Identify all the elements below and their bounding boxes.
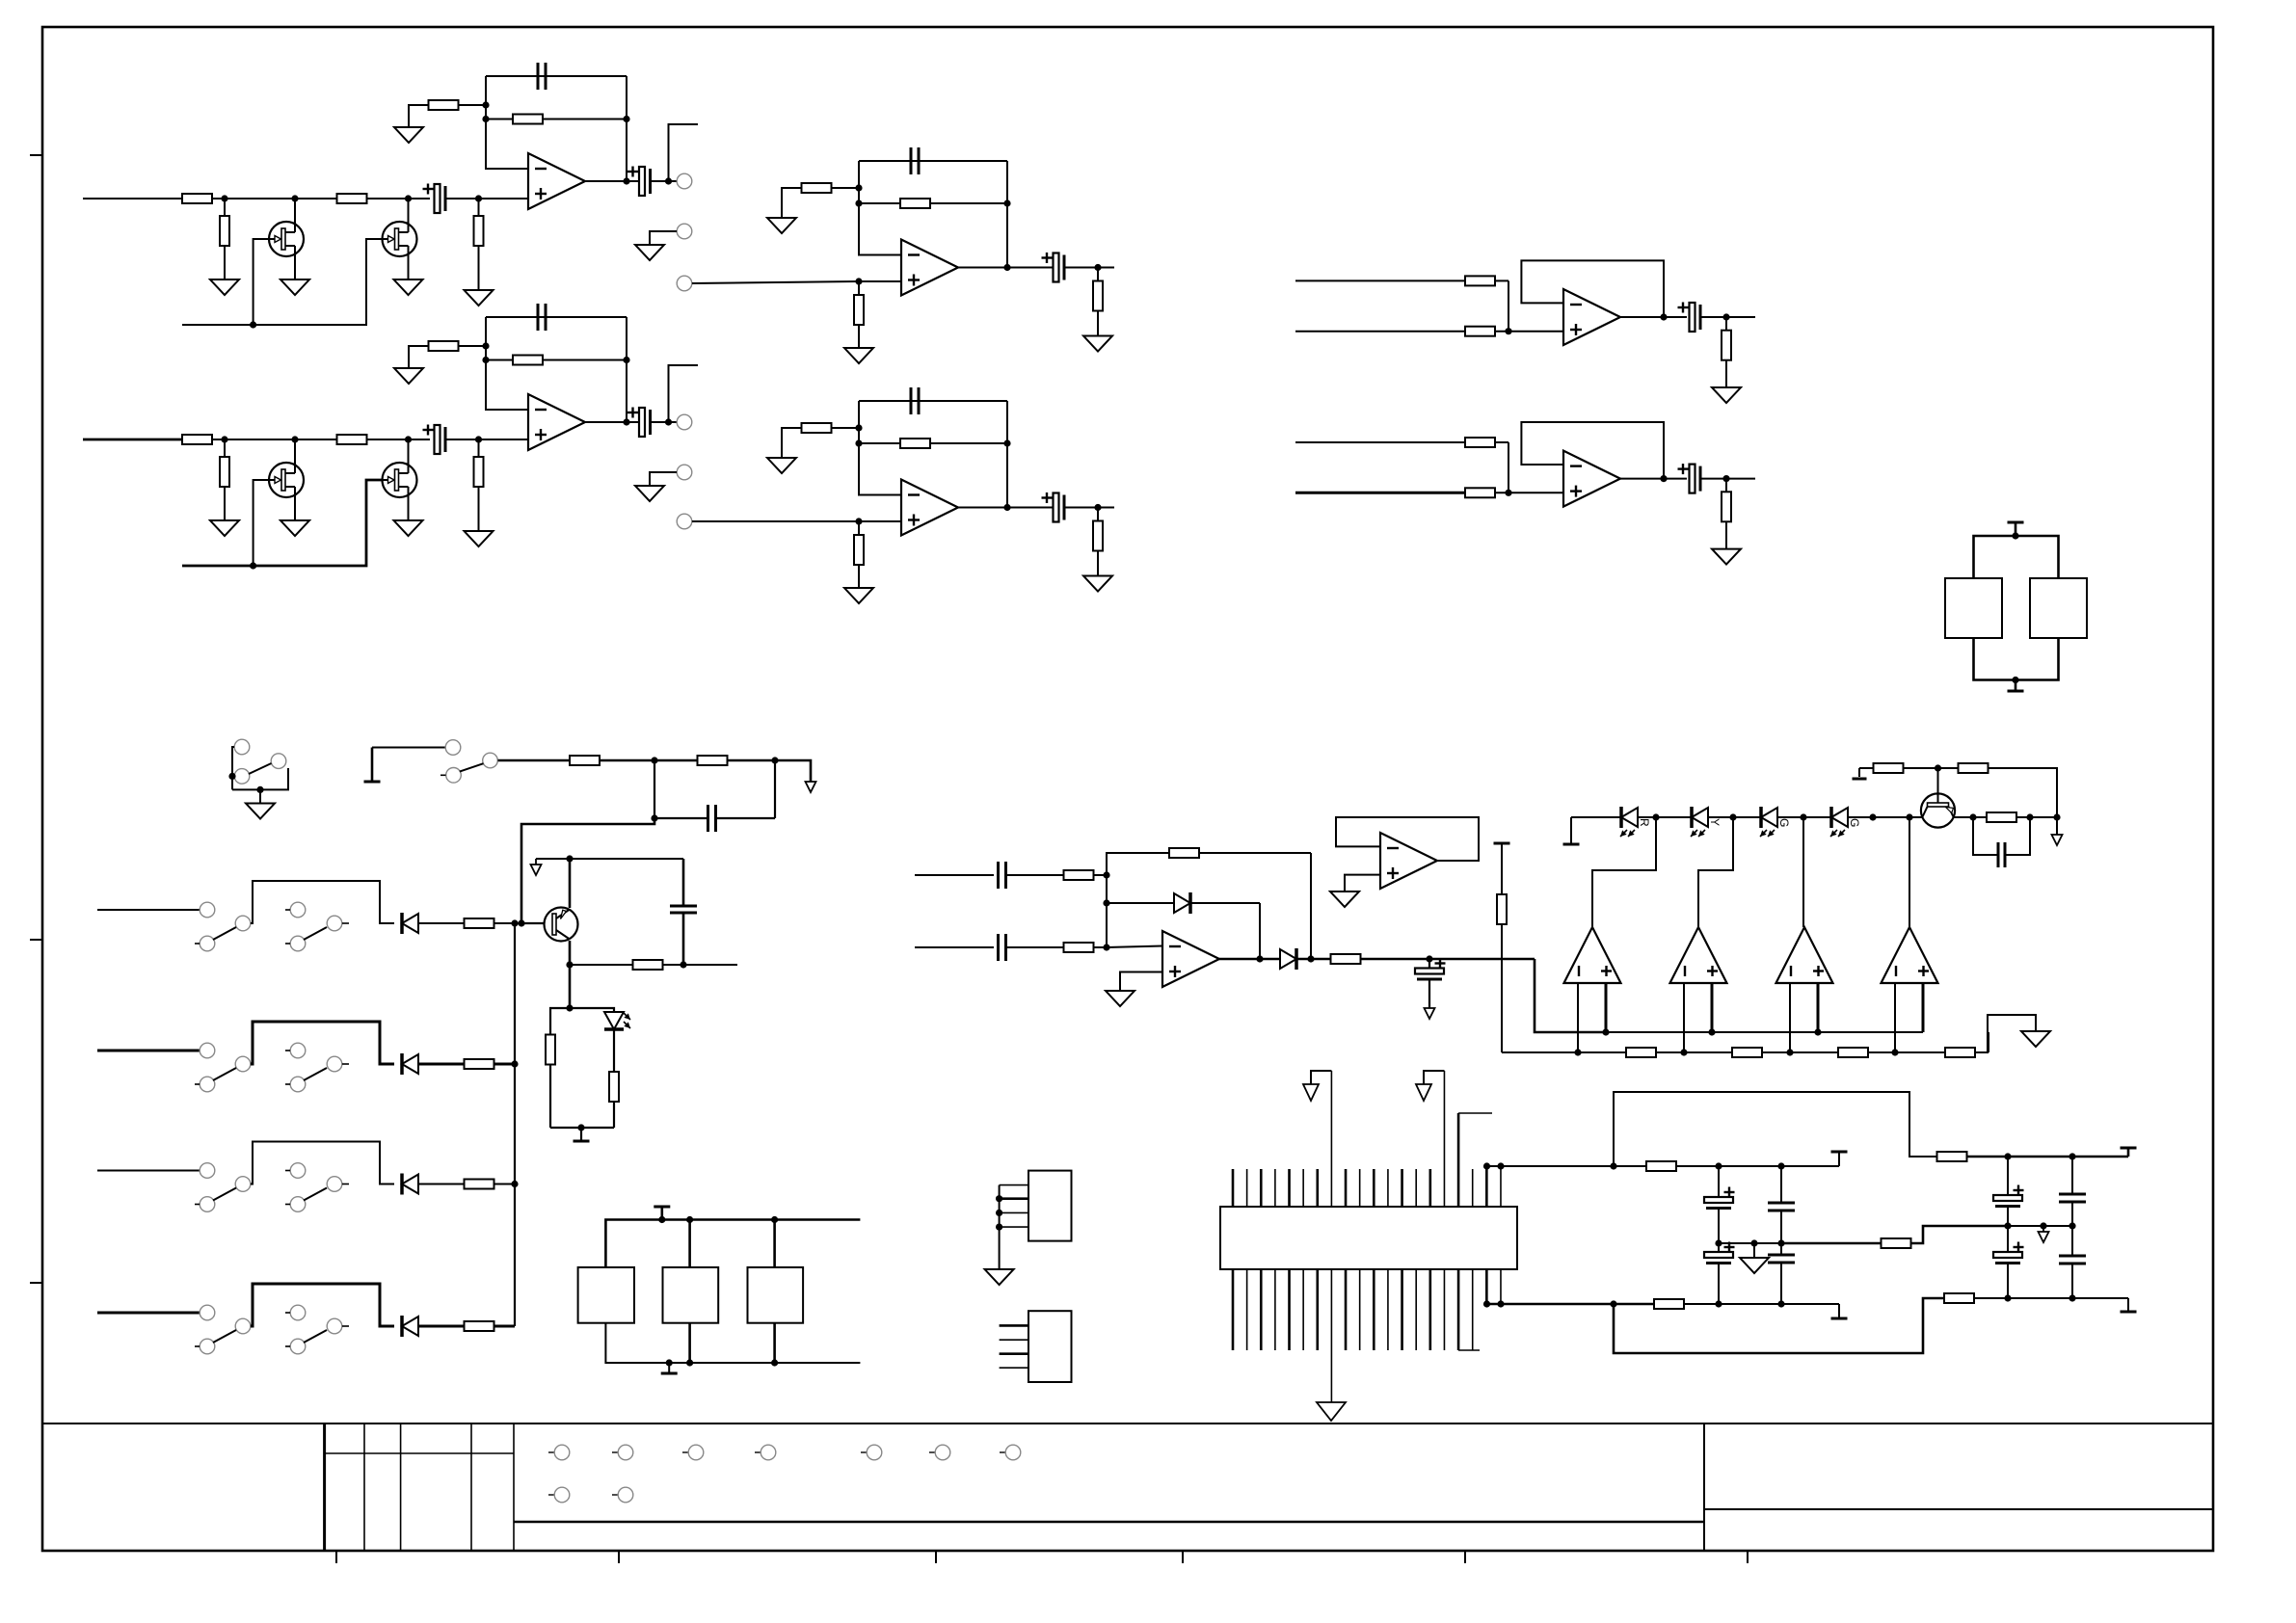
wire SW-B (372, 747, 445, 749)
node X1 bottom (2012, 677, 2018, 683)
node CH1 a (221, 195, 227, 201)
wire CMP2 minus leg (1683, 983, 1685, 1052)
wire CH1 Q1 gate (254, 239, 269, 325)
capacitor CH1 Cin (423, 184, 446, 214)
node CH1 e (482, 101, 489, 108)
title col thick (323, 1423, 326, 1551)
wire BUF2 in upper (1295, 441, 1465, 443)
wire CH2 fb left rail (486, 317, 528, 410)
op-amp ST2 U (901, 480, 958, 536)
capacitor C-bias (654, 805, 775, 832)
node RECT e (1307, 955, 1314, 962)
diode BK3 D (402, 1174, 418, 1195)
resistor CH1 Rfb (486, 115, 627, 124)
jfet CH1 Q2 (383, 199, 417, 256)
resistor CH1 R2 (337, 194, 367, 203)
resistor R-q5 (570, 960, 737, 970)
wire CH1 fb cap rail (486, 75, 627, 77)
wire LEDROW 3 (1777, 816, 1830, 818)
ground CH2 Rg (394, 368, 423, 384)
wire LEDROW 0 (1571, 816, 1620, 818)
wire SW-A frame (232, 747, 288, 789)
node CH1 c (405, 195, 412, 201)
wire RECT in1c (1093, 874, 1107, 876)
wire diode bus (514, 923, 516, 1326)
ground ST1 Rload (1083, 336, 1112, 352)
terminal VP (2121, 1148, 2137, 1157)
wire BK1 to bus (494, 922, 515, 924)
ic U10 pin bottom (1415, 1269, 1417, 1350)
ic U10 pin top (1373, 1169, 1375, 1207)
ic U10 pin top (1429, 1169, 1432, 1207)
wire ST1 out (958, 267, 1056, 269)
wire J10 pin2 (1000, 1197, 1028, 1200)
capacitor ST1 Cout (1042, 253, 1065, 282)
node CH2 d (475, 436, 482, 442)
wire VCC row (1859, 767, 1874, 769)
node busA (1814, 1028, 1821, 1035)
wire Q5 emitter (569, 859, 572, 908)
capacitor ST1 Cfb (911, 147, 919, 174)
node BK3 (511, 1181, 518, 1187)
capacitor CH2 Cin (423, 425, 446, 455)
wire CH2 (445, 439, 528, 440)
resistor R-chain (1626, 1048, 1656, 1057)
wire ST1 to plus (859, 280, 901, 282)
node ST2 e (855, 424, 862, 431)
connector CH2 J1 (677, 414, 692, 430)
node ST1 in (855, 278, 862, 284)
wire RECT in1 (915, 874, 994, 876)
connector row1 c3 (682, 1445, 704, 1460)
node VM a (2004, 1294, 2011, 1301)
wire bias right (774, 760, 776, 818)
wire bus1 (498, 759, 571, 762)
connector ST1 Jin (677, 276, 692, 291)
resistor CH2 Rfb (486, 356, 627, 365)
wire BK4 to bus (494, 1325, 515, 1328)
node CH2 h (665, 418, 672, 425)
wire RECT fb right (1310, 853, 1312, 959)
wire CH2 out2 (651, 421, 684, 423)
node Z1 t2 (686, 1216, 693, 1223)
wire COMP1 feed (1592, 817, 1656, 927)
terminal Z1 bottom (661, 1363, 678, 1373)
wire RECT in2 (915, 946, 994, 948)
node ST2 out (1003, 504, 1010, 511)
node RECT a (1103, 871, 1109, 878)
node RECT c (1103, 899, 1109, 906)
ic U10 pin top (1316, 1169, 1319, 1207)
wire Z1 lead3 (773, 1220, 776, 1268)
wire VCC row3 (1988, 768, 2057, 817)
wire J11 pin1 (1000, 1324, 1028, 1327)
resistor R-v1 (1874, 763, 1904, 773)
ground ST1 Rg (767, 218, 796, 233)
connector CH2 J2 (677, 465, 692, 480)
node C-q5 (680, 961, 686, 968)
resistor R-rfb (1169, 848, 1199, 858)
node bus a (651, 757, 657, 763)
wire CH2 (366, 439, 430, 440)
wire CH1 (445, 198, 528, 200)
wire CMP4 minus leg (1894, 983, 1896, 1052)
wire bus2 (600, 759, 698, 762)
terminal OUT+ (1831, 1152, 1848, 1166)
wire VP row (1966, 1156, 2128, 1158)
title left heavy line (514, 1521, 1704, 1524)
wire RECT to comps (1535, 959, 1606, 1032)
node Q6 d (2026, 813, 2033, 820)
comparator CMP1 (1564, 927, 1621, 983)
title divider (1703, 1423, 1705, 1551)
node BUF2 out (1660, 475, 1667, 482)
wire loop bottom (1614, 1298, 1945, 1353)
wire BK3 d-r (418, 1184, 464, 1185)
node busB (1574, 1049, 1581, 1055)
node J10 p4 (996, 1224, 1002, 1231)
wire CH1 fb right rail (626, 76, 627, 181)
node BK1 (511, 919, 518, 926)
ground SW-A (246, 804, 275, 819)
capacitor C-r1 (999, 862, 1006, 889)
wire X1 top (1974, 536, 2059, 578)
frame tick left (30, 1282, 42, 1284)
wire RECT in1b (1006, 874, 1064, 876)
wire J11 pin4 (1000, 1367, 1028, 1369)
node CH1 d (475, 195, 482, 201)
ground arrow mid R (2039, 1226, 2049, 1242)
node BUF1 h (1722, 313, 1729, 320)
resistor BK1 R (465, 918, 494, 928)
capacitor C-f1 (1704, 1166, 1735, 1243)
terminal T-bar SW-B (364, 748, 381, 783)
wire Q6 collector (1955, 816, 1989, 818)
node J10 p2 (996, 1195, 1002, 1202)
resistor ST1 Rfb (859, 199, 1007, 208)
ic U10 pin bottom (1401, 1269, 1403, 1350)
block X1 box1 (1945, 578, 2002, 638)
node busA (1602, 1028, 1609, 1035)
capacitor C-q6 (1998, 842, 2005, 867)
terminal OUT- (1831, 1304, 1848, 1318)
ground arrow bus (806, 782, 816, 792)
led DL2 Y (1691, 807, 1722, 837)
resistor ST1 Rb (854, 281, 864, 348)
resistor R-chain (1945, 1048, 1975, 1057)
ground J10 (985, 1269, 1014, 1285)
wire OUT+ run2 (1676, 1165, 1839, 1167)
frame tick left (30, 939, 42, 941)
ic U10 pin top (1401, 1169, 1403, 1207)
connector row1 c7 (1000, 1445, 1021, 1460)
resistor BK2 R (465, 1059, 494, 1069)
wire BK1 input (97, 909, 200, 911)
wire BK2 rail (251, 1022, 394, 1064)
resistor R-o2 (1654, 1299, 1684, 1309)
node OUT+ a (1715, 1162, 1722, 1169)
node Q5 e (566, 855, 573, 862)
switch BK4 pole1 (195, 1305, 251, 1354)
wire CH2 output (585, 421, 641, 423)
resistor R-chain (1732, 1048, 1762, 1057)
ic U10 pin17 top (1458, 1113, 1492, 1207)
ic U10 pin bottom (1472, 1269, 1474, 1350)
wire LEDROW 4 (1848, 816, 1922, 818)
node LEDROW 2 (1729, 813, 1736, 820)
node LEDROW 5 (1906, 813, 1912, 820)
terminal VCC bar (1853, 768, 1867, 779)
wire CMP3 plus leg (1817, 983, 1820, 1032)
node OUT+ p19 (1483, 1162, 1490, 1169)
comparator CMP3 (1776, 927, 1833, 983)
wire busB up (1988, 1032, 1989, 1052)
resistor R-rout (1331, 954, 1361, 964)
resistor R-bus2 (698, 756, 728, 765)
wire Z1 lead2 (688, 1220, 691, 1268)
capacitor C-f3 (1768, 1166, 1795, 1243)
wire Q6 cap (1973, 817, 2030, 855)
node CH2 e (482, 342, 489, 349)
ic U10 pin top (1359, 1169, 1361, 1207)
node OUT- a (1715, 1300, 1722, 1307)
resistor ST2 Rg (802, 423, 860, 433)
capacitor BUF1 Cout (1678, 303, 1701, 333)
capacitor C-f4 (1768, 1243, 1795, 1304)
op-amp U-rect (1162, 931, 1219, 987)
wire BUF2 in lower (1295, 492, 1465, 494)
connector row1 c2 (612, 1445, 633, 1460)
node CH1 h (665, 177, 672, 184)
wire CH1 Q1 source (294, 256, 296, 279)
ground CH2 R4 (465, 531, 494, 546)
wire ST1 fb left (859, 161, 901, 255)
ground CH1 Rg (394, 127, 423, 143)
title col 4 (470, 1423, 472, 1551)
wire CMP1 plus leg (1605, 983, 1608, 1032)
wire CH2 (212, 439, 337, 440)
comparator CMP4 (1882, 927, 1938, 983)
resistor CH1 R4 (474, 199, 484, 290)
ground CH2 Q1 (280, 520, 309, 536)
wire BUF1 in lower (1295, 331, 1465, 333)
wire BK2 to bus (494, 1063, 515, 1066)
wire CH1 (212, 198, 337, 200)
wire ST2 fb right (1006, 401, 1008, 508)
resistor R-nfb (1882, 1238, 1911, 1248)
node busA (1708, 1028, 1715, 1035)
wire BUF1 out2 (1700, 316, 1755, 318)
title block top (42, 1423, 2213, 1424)
wire CH1 J2 gnd (650, 231, 677, 245)
filter Z1 box2 (663, 1267, 719, 1323)
wire CH2 fb cap rail (486, 316, 627, 318)
wire BK4 d-r (418, 1325, 464, 1328)
node OUT+ loop (1610, 1162, 1616, 1169)
wire ST2 Rg gnd (782, 428, 802, 458)
ground ST2 Rload (1083, 576, 1112, 592)
ic U10 pin bottom (1274, 1269, 1276, 1350)
diode D-r1 (1107, 892, 1260, 959)
svg-text:Y: Y (1708, 818, 1722, 826)
wire CH2 Rg gnd (409, 346, 429, 368)
wire BUF2 out2 (1700, 478, 1755, 480)
op-amp ST1 U (901, 240, 958, 296)
terminal X1 bottom (2008, 680, 2024, 692)
ground CH1 R3 (210, 279, 239, 295)
wire Z1 lead3b (773, 1323, 776, 1363)
node C-p3 (2069, 1222, 2075, 1229)
wire RECT link (1106, 875, 1108, 947)
wire NFB (1781, 1242, 1882, 1245)
switch BK4 pole2 (285, 1305, 349, 1354)
switch BK3 pole1 (195, 1163, 251, 1212)
led LED1 (604, 1012, 630, 1029)
node RECT b (1103, 944, 1109, 950)
node Z1 b2 (686, 1359, 693, 1366)
wire CH1 input (83, 198, 182, 200)
wire Q6 base (1920, 816, 1923, 818)
resistor BUF2 R2 (1465, 488, 1495, 497)
led DL3 G (1760, 807, 1791, 837)
ic U10 pin16 top V- (1424, 1071, 1444, 1207)
wire CH2 Q2 source (408, 497, 410, 520)
ground CH1 Q2 (394, 279, 423, 295)
wire busB gnd (1973, 1015, 2036, 1052)
wire RECT out1 (1297, 958, 1331, 960)
ic U10 pin16 bottom (1443, 1269, 1445, 1350)
wire BK3 input (97, 1170, 200, 1172)
node LED loop top (566, 1004, 573, 1011)
capacitor CH2 Cout (627, 408, 651, 438)
wire loop top (1614, 1092, 1937, 1166)
node LED loop bottom (577, 1124, 584, 1131)
ground U-spare (1330, 891, 1359, 907)
node VP b (2069, 1153, 2075, 1159)
wire CH2 Q1 gate (254, 480, 269, 566)
wire mid row L (1719, 1242, 1781, 1244)
connector row1 c1 (548, 1445, 570, 1460)
node busB (1680, 1049, 1687, 1055)
ic U10 pin bottom (1260, 1269, 1263, 1350)
wire CMP2 plus leg (1711, 983, 1714, 1032)
ic U10 pin bottom (1373, 1269, 1375, 1350)
resistor CH2 R4 (474, 439, 484, 531)
ic U10 pin bottom (1429, 1269, 1432, 1350)
wire Q6 emitter (1937, 768, 1939, 793)
wire ST1 cap rail (859, 160, 1007, 162)
ground ST2 Rg (767, 458, 796, 473)
capacitor CH2 Cfb (538, 304, 546, 331)
resistor ST2 Rb (854, 521, 864, 588)
wire Z1 bottom rail (605, 1323, 860, 1363)
op-amp CH1 U1 (528, 153, 585, 209)
wire CMP4 plus leg (1922, 983, 1925, 1032)
capacitor BUF2 Cout (1678, 464, 1701, 493)
resistor R-p1 (1937, 1152, 1967, 1161)
wire J10 gnd bus (999, 1185, 1001, 1269)
ic U10 pin top (1260, 1169, 1263, 1207)
wire Q6 out (2016, 816, 2057, 818)
wire VM row (1973, 1297, 2128, 1299)
node LEDROW 1 (1652, 813, 1659, 820)
ic U10 pin bottom (1232, 1269, 1235, 1350)
terminal LED gnd (574, 1128, 590, 1141)
node Z1 b1 (666, 1359, 673, 1366)
wire J10 pin3 (1000, 1211, 1028, 1213)
node Z1 t3 (771, 1216, 778, 1223)
ic U10 pin17 bottom (1458, 1269, 1480, 1350)
wire ST2 to plus (859, 520, 901, 522)
wire BK4 input (97, 1312, 200, 1315)
node C-f1 (1715, 1239, 1722, 1246)
connector J10 box (1028, 1171, 1072, 1241)
supply arrow A2 (1416, 1084, 1431, 1101)
wire COMP2 feed (1698, 817, 1733, 927)
comparator CMP2 (1670, 927, 1727, 983)
node Z1 b3 (771, 1359, 778, 1366)
resistor CH1 R3 (220, 199, 229, 279)
led DL1 R (1620, 807, 1651, 837)
ic U10 pin top (1288, 1169, 1291, 1207)
wire CH2 input (83, 439, 182, 441)
node ST2 in (855, 518, 862, 524)
ic U10 pin bottom short (1485, 1269, 1488, 1304)
node Q6 c (1969, 813, 1976, 820)
connector row2 c2 (612, 1487, 633, 1503)
capacitor ST2 Cfb (911, 387, 919, 414)
node Q5 c (566, 961, 573, 968)
ic U10 pin top short (1500, 1166, 1502, 1207)
ground ST2 Rb (844, 588, 873, 603)
switch BK2 pole2 (285, 1043, 349, 1092)
node mid R (2040, 1222, 2046, 1229)
wire CH1 out stub (669, 124, 699, 181)
resistor R-q6 (1987, 812, 2016, 822)
node CH2 gate rail (250, 562, 256, 569)
jfet CH2 Q1 (269, 439, 304, 497)
node OUT- loop (1610, 1300, 1616, 1307)
resistor ST1 Rload (1093, 268, 1103, 336)
svg-text:G: G (1848, 818, 1861, 827)
node CH1 out (623, 177, 629, 184)
title col 5 (513, 1423, 515, 1551)
wire base run (521, 818, 654, 923)
ic U10 pin bottom (1359, 1269, 1361, 1350)
node busB (1786, 1049, 1793, 1055)
title col 3 (400, 1423, 402, 1551)
wire CH1 output (585, 180, 641, 182)
node ST1 out (1003, 264, 1010, 271)
ground arrow C-avg (1425, 1008, 1435, 1019)
node base join (518, 919, 524, 926)
wire SW-A gnd stub (259, 789, 261, 803)
resistor R-chain (1838, 1048, 1868, 1057)
capacitor CH1 Cout (627, 167, 651, 197)
resistor ST2 Rfb (859, 439, 1007, 448)
node busB (1891, 1049, 1898, 1055)
wire BUF2 fb (1521, 422, 1664, 479)
wire emitter rail (536, 858, 683, 860)
node ST2 g (1003, 439, 1010, 446)
capacitor C-p4 (2059, 1226, 2086, 1298)
wire BUF2 in link (1508, 442, 1509, 492)
ground CH1 Q1 (280, 279, 309, 295)
ic U10 pin top (1302, 1169, 1304, 1207)
svg-text:R: R (1638, 818, 1651, 827)
resistor BUF1 Rload (1722, 317, 1731, 387)
ground CH1 R4 (465, 290, 494, 306)
